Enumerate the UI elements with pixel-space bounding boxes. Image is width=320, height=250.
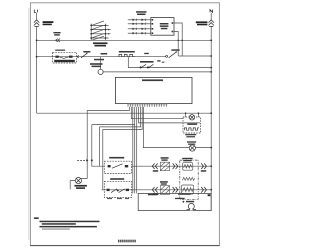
wire pin3 long vertical xyxy=(132,107,134,194)
note line 3 xyxy=(40,226,97,228)
wire pin9 left run xyxy=(103,107,142,130)
light switch circle xyxy=(189,115,194,120)
broil igniter label xyxy=(160,181,168,183)
spark module mark xyxy=(208,194,211,196)
DLB relay contact xyxy=(169,51,178,58)
wire N stub xyxy=(210,13,212,20)
wire thermostat row xyxy=(37,56,166,58)
connector chevrons B right xyxy=(173,187,178,193)
heating element square-wave xyxy=(119,54,135,56)
oven igniter circle xyxy=(98,69,103,74)
thermostat label xyxy=(54,60,75,62)
chevron B label xyxy=(153,194,159,195)
EOC pin row shading xyxy=(127,103,167,105)
wire N bus vertical xyxy=(210,27,212,211)
wire flame switch branch xyxy=(128,57,211,68)
wire row B xyxy=(102,189,212,191)
oven light assembly stubs xyxy=(185,113,187,117)
wire igniter branch xyxy=(100,57,102,70)
oven selector switch S1 xyxy=(90,21,110,40)
wire label under row xyxy=(94,59,104,61)
clock connector pins xyxy=(128,19,151,35)
center coil squiggle xyxy=(182,177,194,180)
small part TH marks xyxy=(157,60,160,61)
border frame of sheet xyxy=(30,3,219,246)
scan shadow line xyxy=(28,8,30,240)
N supply value label xyxy=(196,21,208,23)
electronic oven control box xyxy=(116,77,193,103)
spark module top label xyxy=(148,194,157,196)
thermostat terminals xyxy=(55,56,58,58)
wire pin2 right run xyxy=(131,107,183,119)
contact pivot circle xyxy=(166,55,168,57)
bake igniter label xyxy=(161,157,169,159)
oven thermostat dashed box xyxy=(53,52,77,63)
igniter label xyxy=(90,63,103,65)
gas valve dash-dot box xyxy=(180,160,198,199)
wire clock out 1 xyxy=(174,23,182,56)
wire box2 feed vertical xyxy=(103,129,105,189)
chevron A label xyxy=(153,170,158,172)
door lock switch label xyxy=(109,157,124,159)
label TH1 xyxy=(144,53,149,54)
ground rotor symbol xyxy=(187,203,196,210)
N supply arrow xyxy=(209,20,214,27)
light box inner label xyxy=(187,123,197,125)
wire fan feed vertical xyxy=(81,110,87,178)
clock connector label xyxy=(136,11,147,13)
connector chevrons B left xyxy=(152,187,157,193)
bake valve label xyxy=(182,158,192,159)
DLB contact label xyxy=(171,49,179,51)
connector chevrons B out xyxy=(201,187,206,193)
wire L1 stub xyxy=(36,13,38,20)
EOC pin header comb xyxy=(128,104,166,107)
light element square-wave xyxy=(184,128,199,130)
wire pin1 left run xyxy=(87,107,129,111)
clock terminals xyxy=(152,19,174,34)
oven switch contact xyxy=(77,53,88,59)
wire pin10 lamp run xyxy=(143,107,211,148)
door lock switch contact xyxy=(108,164,129,168)
wire clock out 2 xyxy=(174,32,178,57)
wire pin5 long vertical xyxy=(136,107,138,194)
thermostat top label xyxy=(55,50,65,51)
wire top rail L1 to N xyxy=(37,39,212,41)
door lock switch 2 label xyxy=(110,178,124,180)
wire L1 bus vertical xyxy=(36,27,38,113)
clock U1 box xyxy=(151,18,174,36)
spark module text xyxy=(186,201,194,203)
note line 2 xyxy=(42,223,76,225)
note line 1 xyxy=(40,221,100,223)
junction N lamp row xyxy=(210,147,212,149)
oven switch label xyxy=(83,51,90,53)
fan label xyxy=(74,185,87,187)
spark module text 2 xyxy=(175,198,185,199)
junction N main run xyxy=(210,112,212,114)
bake igniter hatched xyxy=(160,162,169,171)
bake valve coil xyxy=(183,163,193,171)
wire dashed door tap xyxy=(77,159,87,161)
wire spare vertical xyxy=(99,127,101,166)
spark module dashes xyxy=(178,194,191,195)
wire pin7 right run xyxy=(139,107,200,123)
junction L1 thermostat row xyxy=(36,56,38,58)
oven selector switch label xyxy=(93,42,108,44)
label WA1 xyxy=(101,53,108,55)
junction N rail xyxy=(210,39,212,41)
L1 supply value label xyxy=(43,21,54,23)
oven lamp label xyxy=(187,141,196,142)
note line 4 xyxy=(42,228,70,229)
junction N flame row xyxy=(210,67,212,69)
connector chevrons A right xyxy=(173,163,178,169)
flame switch label xyxy=(140,61,154,63)
junction door dashed tap xyxy=(91,159,93,161)
door lock switch 2 contacts xyxy=(107,189,129,193)
clock label xyxy=(160,23,169,25)
spark module dot xyxy=(183,201,185,203)
wire pin4 long vertical xyxy=(134,107,136,194)
EOC label xyxy=(142,79,163,81)
spark module box xyxy=(138,193,211,210)
wire box1 feed vertical xyxy=(92,125,105,167)
junction N row B xyxy=(210,189,212,191)
junction N igniter row xyxy=(210,71,212,73)
connector arrow on top rail xyxy=(56,39,60,42)
thermostat contact xyxy=(59,57,69,59)
wire contact to N xyxy=(179,55,212,57)
wire pin8 left run xyxy=(100,107,141,127)
cooling fan motor xyxy=(75,178,81,184)
frame bottom edge xyxy=(30,245,220,247)
oven light dashed box xyxy=(183,117,201,133)
node N label xyxy=(210,10,213,13)
wire row A xyxy=(132,165,212,167)
notes heading xyxy=(34,217,39,219)
connector chevrons A left xyxy=(152,163,157,169)
door lock switch box xyxy=(104,161,131,173)
node L1 label xyxy=(34,10,37,13)
wire branch left run xyxy=(92,124,135,126)
junction L1 rail xyxy=(36,39,38,41)
door lock switch 2 box xyxy=(104,181,131,197)
oven lamp circle xyxy=(189,145,195,151)
wire igniter to N xyxy=(103,71,211,73)
flame switch contacts xyxy=(140,64,153,68)
broil igniter hatched xyxy=(160,186,169,195)
junction clock wires on rail xyxy=(177,40,179,42)
arrow door dashed tap xyxy=(86,159,88,162)
label above rail connector xyxy=(53,32,60,33)
junction lamp stubs xyxy=(185,112,187,114)
L1 supply arrow xyxy=(34,20,39,27)
part number xyxy=(118,240,119,243)
junction N row A xyxy=(210,165,212,167)
broil valve coil xyxy=(181,185,193,194)
junction N row1 xyxy=(210,55,212,57)
wire main L1 run xyxy=(37,112,212,114)
connector chevrons A out xyxy=(201,163,206,169)
chevron A out label xyxy=(201,170,206,172)
heating element label xyxy=(119,51,135,53)
oven light label xyxy=(185,134,196,135)
fan left lead xyxy=(70,181,75,190)
door lock switch 2 bottom marks xyxy=(107,198,112,199)
